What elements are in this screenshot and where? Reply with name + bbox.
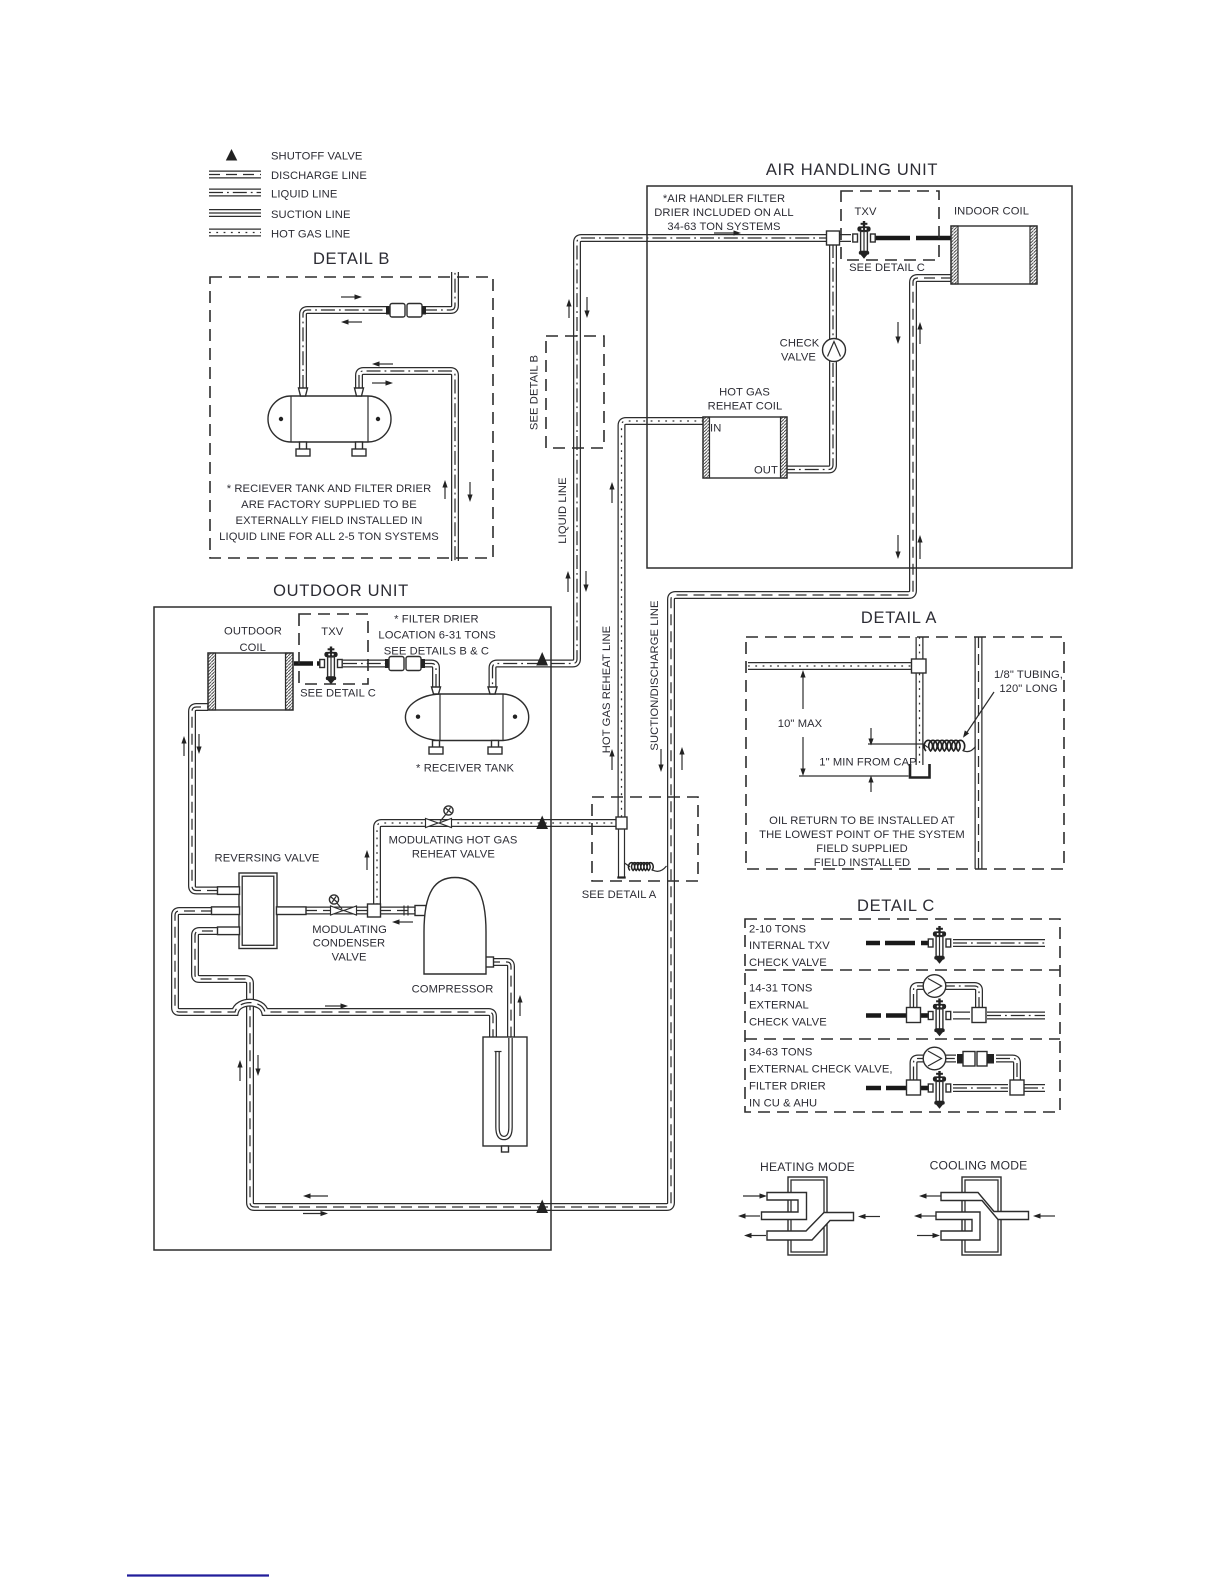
svg-text:DETAIL B: DETAIL B — [313, 250, 390, 268]
svg-text:CHECK: CHECK — [780, 338, 820, 350]
detail C dashed boxes — [745, 919, 1060, 1112]
inlet funnel fittings on tank (outdoor) — [432, 687, 441, 694]
svg-text:CHECK VALVE: CHECK VALVE — [749, 1017, 827, 1029]
TXV detail C row1 — [928, 926, 950, 964]
svg-text:CONDENSER: CONDENSER — [313, 938, 385, 950]
receiver tank foot left (detail B) — [296, 442, 310, 456]
union fitting on compressor feed — [404, 906, 408, 916]
receiver tank (outdoor unit) — [405, 694, 528, 741]
wire: detail C row3 check valve and drier bypass loop — [914, 1059, 1018, 1081]
svg-text:EXTERNALLY FIELD INSTALLED IN: EXTERNALLY FIELD INSTALLED IN — [236, 515, 423, 527]
cooling mode reversing valve symbol — [936, 1177, 1029, 1255]
svg-text:* RECIEVER TANK AND FILTER DRI: * RECIEVER TANK AND FILTER DRIER — [227, 483, 432, 495]
receiver tank foot right (detail B) — [352, 442, 366, 456]
svg-text:OUTDOOR: OUTDOOR — [224, 626, 282, 638]
legend labels — [271, 151, 367, 241]
svg-text:MODULATING: MODULATING — [312, 924, 387, 936]
wire: liquid line filter drier to receiver tank left riser — [421, 664, 436, 688]
legend suction line sample — [209, 209, 261, 217]
detail A leader line for 1/8 tubing — [963, 692, 994, 738]
flow arrows AHU coil riser upper pair — [895, 322, 900, 344]
wire: liquid drop through check valve to reheat coil OUT — [787, 244, 833, 470]
svg-text:REVERSING VALVE: REVERSING VALVE — [215, 853, 320, 865]
flow arrows bottom suction run — [303, 1193, 328, 1198]
check valve detail C row3 — [923, 1047, 946, 1070]
flow arrows outdoor coil riser pair — [181, 736, 186, 756]
svg-text:SEE DETAILS B & C: SEE DETAILS B & C — [384, 646, 489, 658]
shutoff valve on hot gas line at outdoor unit — [536, 816, 548, 830]
detail B dashed box — [210, 277, 493, 558]
cooling mode arrows — [919, 1193, 941, 1198]
receiver tank foot left (outdoor) — [429, 741, 443, 755]
heating mode reversing valve symbol — [762, 1177, 854, 1255]
wire: detail A suction line vertical — [975, 637, 983, 869]
svg-text:MODULATING HOT GAS: MODULATING HOT GAS — [389, 835, 518, 847]
svg-text:34-63 TON SYSTEMS: 34-63 TON SYSTEMS — [667, 221, 780, 233]
compressor — [415, 878, 494, 975]
svg-text:* RECEIVER TANK: * RECEIVER TANK — [416, 763, 515, 775]
outdoor unit box — [154, 607, 551, 1250]
wire: detail C row1 pipe right of TXV — [953, 939, 1045, 947]
flow arrow compressor feed — [392, 919, 413, 924]
svg-text:TXV: TXV — [321, 626, 343, 638]
oil return coil (detail A) — [923, 740, 976, 751]
svg-text:10" MAX: 10" MAX — [778, 718, 823, 730]
wire: oil return stub below hot gas tee — [617, 829, 625, 878]
indoor coil — [951, 226, 1037, 284]
svg-text:IN: IN — [710, 423, 721, 435]
detail A dimension 1in min from cap — [868, 728, 923, 792]
wire: detail C row2 dark segment tee to TXV fitting — [920, 1013, 928, 1018]
outdoor coil — [208, 653, 293, 710]
detail A dashed box — [746, 637, 1064, 869]
svg-text:SEE DETAIL B: SEE DETAIL B — [529, 355, 541, 430]
tee fitting AHU liquid line — [827, 231, 840, 245]
wire: suction line reversing valve port1 to outdoor coil — [192, 707, 218, 891]
svg-text:INDOOR COIL: INDOOR COIL — [954, 206, 1029, 218]
svg-text:* FILTER DRIER: * FILTER DRIER — [394, 614, 479, 626]
wire: suction/discharge loop from indoor coil down to outdoor unit reversing valve port3 — [195, 278, 952, 1207]
air handling unit box — [647, 186, 1072, 568]
legend liquid line sample — [209, 189, 261, 197]
svg-text:OIL RETURN TO BE INSTALLED AT: OIL RETURN TO BE INSTALLED AT — [769, 815, 955, 827]
svg-text:INTERNAL TXV: INTERNAL TXV — [749, 940, 830, 952]
svg-text:HEATING MODE: HEATING MODE — [760, 1160, 855, 1174]
check valve (AHU) — [823, 339, 846, 362]
wire: reversing valve right port to tee — [306, 907, 368, 915]
wire: detail C row3 thick inlet line — [866, 1086, 906, 1091]
detail C row3 labels — [749, 1047, 893, 1110]
flow arrows outdoor suction downcomer pair — [237, 1060, 242, 1081]
see detail A dashed box — [592, 797, 698, 881]
TXV U2 (outdoor unit) — [320, 647, 342, 685]
svg-text:COIL: COIL — [239, 642, 266, 654]
tee fitting detail A — [912, 659, 927, 673]
AHU filter note — [654, 193, 794, 233]
wire: detail B upper liquid pipe with riser to tank — [303, 310, 390, 389]
svg-text:*AIR HANDLER FILTER: *AIR HANDLER FILTER — [663, 193, 785, 205]
wire: oil return coil connection in main diagram — [625, 863, 667, 872]
svg-text:VALVE: VALVE — [332, 952, 367, 964]
filter drier (detail B) — [386, 304, 426, 318]
svg-text:COMPRESSOR: COMPRESSOR — [412, 984, 494, 996]
wire: hot gas reheat line vertical up to reheat coil IN — [622, 421, 704, 817]
svg-text:HOT GAS: HOT GAS — [719, 387, 770, 399]
shutoff valve on suction line at outdoor unit — [536, 1200, 548, 1214]
wire: detail C row3 main pipe segments — [953, 1084, 1045, 1092]
svg-text:THE LOWEST POINT OF THE SYSTEM: THE LOWEST POINT OF THE SYSTEM — [759, 829, 965, 841]
wire: thick capillary outdoor coil to TXV — [294, 661, 320, 666]
flow arrows on liquid line upper pair — [566, 299, 571, 318]
TXV dashed box (AHU) — [841, 191, 939, 260]
svg-text:120" LONG: 120" LONG — [999, 683, 1057, 695]
svg-text:IN CU & AHU: IN CU & AHU — [749, 1098, 817, 1110]
svg-text:SHUTOFF VALVE: SHUTOFF VALVE — [271, 151, 362, 163]
svg-text:DISCHARGE LINE: DISCHARGE LINE — [271, 170, 367, 182]
svg-text:DRIER INCLUDED ON ALL: DRIER INCLUDED ON ALL — [654, 207, 794, 219]
svg-text:LIQUID LINE FOR ALL 2-5 TON SY: LIQUID LINE FOR ALL 2-5 TON SYSTEMS — [219, 531, 439, 543]
wire: detail A hot gas vertical pipe to cap — [916, 637, 924, 765]
filter drier detail C row3 bypass — [957, 1052, 994, 1067]
wire: detail C row3 dark segment tee to TXV fitting — [920, 1086, 928, 1091]
inlet funnel fittings on tank (detail B) — [299, 388, 308, 396]
accumulator muffler — [483, 1037, 527, 1152]
svg-text:DETAIL A: DETAIL A — [861, 609, 937, 627]
TXV detail C row2 — [928, 999, 950, 1037]
TXV U1 (air handler) — [853, 221, 875, 259]
flow arrow compressor discharge riser — [517, 995, 522, 1016]
filter drier (outdoor unit) — [385, 657, 425, 671]
svg-text:34-63 TONS: 34-63 TONS — [749, 1047, 812, 1059]
wire: detail B lower liquid pipe from tank exiting box bottom — [359, 371, 455, 561]
svg-text:SUCTION LINE: SUCTION LINE — [271, 209, 351, 221]
svg-text:REHEAT VALVE: REHEAT VALVE — [412, 849, 495, 861]
svg-text:FIELD INSTALLED: FIELD INSTALLED — [814, 857, 910, 869]
svg-text:CHECK VALVE: CHECK VALVE — [749, 957, 827, 969]
svg-text:1" MIN FROM CAP: 1" MIN FROM CAP — [819, 757, 916, 769]
svg-text:VALVE: VALVE — [781, 352, 816, 364]
heating mode arrows — [743, 1193, 767, 1198]
svg-text:SEE DETAIL C: SEE DETAIL C — [300, 688, 376, 700]
flow arrow hot gas reheat line lower — [609, 749, 614, 770]
svg-text:ARE FACTORY SUPPLIED TO BE: ARE FACTORY SUPPLIED TO BE — [241, 499, 417, 511]
legend hot gas line sample — [209, 229, 261, 237]
pipe cap (detail A) — [910, 764, 930, 778]
wire: hot gas line from tee up through modulating valve corner — [377, 823, 616, 905]
flow arrows detail B top pipe — [341, 294, 362, 299]
wire: liquid line outdoor TXV to filter drier — [343, 660, 388, 668]
flow arrow modulating hot gas riser — [364, 850, 369, 870]
modulating condenser valve — [329, 895, 356, 915]
svg-text:OUTDOOR UNIT: OUTDOOR UNIT — [273, 582, 409, 600]
detail A dimension line 10in max — [799, 670, 909, 776]
filter drier note (outdoor) — [378, 614, 495, 658]
wire: compressor discharge to accumulator — [489, 962, 511, 1038]
see detail B dashed box — [546, 336, 604, 448]
wire: detail C row2 thick inlet line — [866, 1013, 906, 1018]
wire: detail B upper pipe after filter drier exiting box top — [423, 272, 455, 310]
modulating hot gas reheat valve — [426, 806, 454, 828]
wire: tee to compressor suction stub — [380, 907, 416, 915]
flow arrows suction discharge line — [658, 749, 663, 772]
wire: detail C row2 check valve bypass loop — [914, 986, 980, 1008]
svg-text:COOLING MODE: COOLING MODE — [930, 1159, 1028, 1173]
wire: liquid line from AHU tee left and down to outdoor unit receiver riser — [493, 238, 834, 687]
wire: AHU tee to TXV fitting — [839, 234, 851, 242]
footer rule line — [127, 1574, 269, 1576]
flow arrows on liquid line lower pair — [565, 571, 570, 592]
svg-text:EXTERNAL CHECK VALVE,: EXTERNAL CHECK VALVE, — [749, 1064, 893, 1076]
flow arrow hot gas reheat line upper — [609, 482, 614, 503]
wire: detail A hot gas horizontal pipe — [748, 662, 912, 670]
svg-text:LOCATION 6-31 TONS: LOCATION 6-31 TONS — [378, 630, 495, 642]
tee fittings detail C row3 — [907, 1080, 921, 1095]
svg-text:1/8" TUBING,: 1/8" TUBING, — [994, 669, 1063, 681]
wire: detail C row1 thick inlet line — [866, 941, 929, 946]
svg-text:SEE DETAIL C: SEE DETAIL C — [849, 262, 925, 274]
detail C row2 labels — [749, 983, 827, 1029]
oil return note — [759, 815, 965, 869]
wire: thick capillary AHU TXV to indoor coil — [874, 236, 952, 241]
flow arrow AHU filter note — [714, 230, 741, 235]
svg-text:SEE DETAIL A: SEE DETAIL A — [582, 889, 657, 901]
detail C row1 labels — [749, 924, 830, 970]
wire: detail C row2 main pipe segments — [953, 1012, 1045, 1020]
tee fitting hot gas line (see detail A) — [616, 817, 627, 829]
TXV detail C row3 — [928, 1071, 950, 1109]
svg-text:14-31 TONS: 14-31 TONS — [749, 983, 812, 995]
tee fittings detail C row2 — [907, 1008, 921, 1023]
wire: line from reversing valve port2 down and right (crossover hump) to accumulator — [175, 911, 493, 1045]
svg-text:LIQUID LINE: LIQUID LINE — [271, 189, 337, 201]
svg-text:HOT GAS REHEAT LINE: HOT GAS REHEAT LINE — [601, 626, 613, 753]
svg-text:TXV: TXV — [854, 206, 876, 218]
svg-text:FIELD SUPPLIED: FIELD SUPPLIED — [816, 843, 908, 855]
flow arrows AHU coil riser lower pair — [895, 535, 900, 559]
flow arrows detail B lower pipe — [372, 361, 393, 366]
svg-text:SUCTION/DISCHARGE LINE: SUCTION/DISCHARGE LINE — [649, 600, 661, 750]
legend shutoff valve symbol — [226, 149, 238, 161]
svg-text:LIQUID LINE: LIQUID LINE — [557, 477, 569, 543]
svg-text:OUT: OUT — [754, 465, 778, 477]
receiver tank (detail B) — [268, 396, 391, 442]
svg-text:DETAIL C: DETAIL C — [857, 897, 935, 915]
receiver tank foot right (outdoor) — [488, 741, 502, 755]
svg-text:HOT GAS LINE: HOT GAS LINE — [271, 229, 350, 241]
tee fitting outdoor hot gas takeoff — [368, 904, 381, 917]
legend discharge line sample — [209, 171, 261, 179]
reversing valve — [212, 873, 307, 949]
svg-text:2-10 TONS: 2-10 TONS — [749, 924, 806, 936]
check valve detail C row2 — [923, 975, 946, 998]
TXV dashed box (outdoor) — [299, 614, 368, 684]
detail B note text — [219, 483, 439, 543]
flow arrows detail B right pipe pair — [442, 480, 447, 499]
svg-text:AIR HANDLING UNIT: AIR HANDLING UNIT — [766, 161, 938, 179]
hot gas reheat coil — [703, 417, 787, 478]
svg-text:FILTER DRIER: FILTER DRIER — [749, 1081, 826, 1093]
svg-text:REHEAT COIL: REHEAT COIL — [708, 401, 783, 413]
flow arrow horizontal run to accumulator — [325, 1003, 348, 1008]
svg-text:EXTERNAL: EXTERNAL — [749, 1000, 809, 1012]
shutoff valve on liquid line at outdoor unit — [536, 652, 548, 666]
